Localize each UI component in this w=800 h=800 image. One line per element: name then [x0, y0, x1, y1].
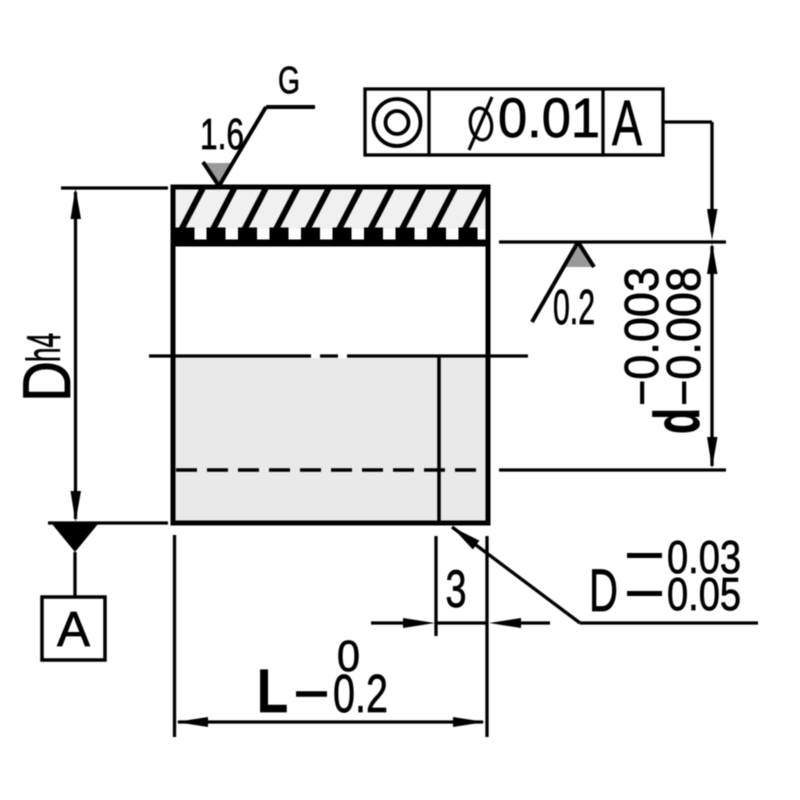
- svg-text:A: A: [57, 603, 90, 657]
- L left extension line: [173, 535, 176, 737]
- 3mm dimension line with outside arrows: [371, 618, 550, 628]
- D tolerance leader line with arrow: [452, 527, 758, 623]
- svg-text:0.2: 0.2: [333, 664, 388, 724]
- label L with tolerances: [257, 632, 388, 725]
- Dh4 top extension line: [61, 186, 168, 189]
- feature control frame box: [365, 89, 663, 155]
- svg-text:3: 3: [446, 560, 467, 619]
- centerline (axis): [149, 354, 528, 357]
- part body lower gray section (bore d region): [176, 358, 486, 521]
- datum A box: [42, 597, 105, 660]
- label d with tolerances (rotated): [616, 267, 713, 434]
- bore hidden edge dashed line: [176, 468, 486, 472]
- svg-text:A: A: [612, 87, 642, 159]
- Dh4 dimension line with arrows: [71, 188, 82, 522]
- svg-text:0.05: 0.05: [667, 568, 741, 620]
- svg-text:L: L: [257, 657, 288, 725]
- 3mm right extension line / part edge extension: [485, 536, 488, 737]
- label 0.2: [553, 281, 595, 335]
- knurl hatch diagonal lines: [148, 184, 489, 234]
- lower right extension line (bore d): [499, 468, 726, 471]
- label Dh4: [9, 333, 85, 402]
- datum leader stem: [73, 552, 76, 597]
- datum feature triangle (filled): [52, 524, 98, 552]
- datum reference letter A: [612, 87, 642, 159]
- svg-text:1.6: 1.6: [200, 110, 244, 159]
- label 1.6: [200, 110, 244, 159]
- svg-text:0.2: 0.2: [553, 281, 595, 335]
- surface finish symbol 1.6 (top surface): [203, 107, 315, 186]
- tolerance value 0.01: [498, 86, 600, 149]
- svg-text:D: D: [9, 361, 85, 402]
- svg-text:D: D: [589, 557, 618, 624]
- svg-text:h4: h4: [17, 333, 70, 362]
- svg-text:G: G: [278, 60, 300, 102]
- part outline rectangle: [173, 187, 488, 523]
- d dimension line with arrows: [707, 243, 718, 468]
- svg-text:−0.008: −0.008: [658, 267, 711, 406]
- knurl hatch band background: [176, 189, 486, 229]
- L dimension line with arrows: [176, 717, 485, 727]
- 3mm left extension line: [434, 536, 437, 636]
- svg-text:0.01: 0.01: [498, 86, 600, 149]
- phi symbol: [468, 97, 494, 150]
- concentricity symbol U+25CE: [374, 99, 421, 146]
- groove boundary vertical line (3mm section): [437, 358, 441, 521]
- knurl base black strip: [176, 240, 486, 247]
- label G: [278, 60, 300, 102]
- surface finish symbol 0.2 (underside, flipped): [532, 242, 594, 322]
- FCF leader line with arrow: [663, 122, 718, 240]
- label D with tolerances: [589, 531, 741, 624]
- upper right extension line (knurl root diameter): [499, 240, 726, 243]
- label 3: [446, 560, 467, 619]
- knurl teeth row: [176, 228, 478, 242]
- svg-text:d: d: [641, 408, 713, 434]
- Dh4 bottom extension line: [48, 521, 168, 524]
